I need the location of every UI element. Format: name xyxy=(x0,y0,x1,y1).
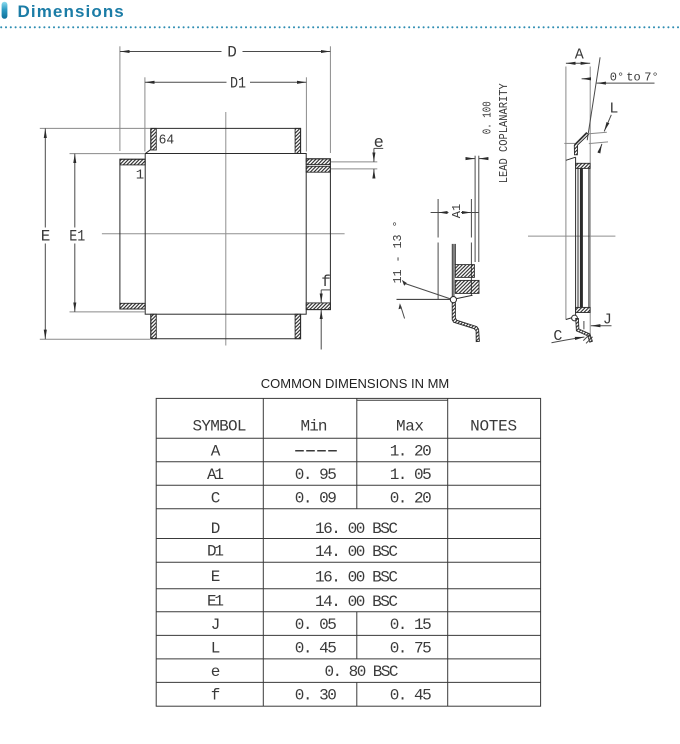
svg-text:D: D xyxy=(211,520,221,538)
svg-text:16. 00 BSC: 16. 00 BSC xyxy=(315,520,398,538)
side view lead profile xyxy=(452,303,479,342)
svg-text:0. 100: 0. 100 xyxy=(481,101,495,134)
svg-text:0. 45: 0. 45 xyxy=(295,639,337,657)
svg-text:f: f xyxy=(321,273,331,291)
top view centerlines xyxy=(102,112,345,346)
table row E xyxy=(211,568,398,586)
end view centerline xyxy=(528,235,615,237)
dimension J xyxy=(584,311,612,329)
svg-text:D: D xyxy=(227,43,237,61)
dimension L xyxy=(588,100,619,149)
angle 11-13 degrees xyxy=(391,221,451,319)
table row D1 xyxy=(207,543,398,561)
svg-text:A: A xyxy=(575,47,584,64)
svg-text:1. 20: 1. 20 xyxy=(390,442,432,460)
dimension A1 xyxy=(431,204,479,218)
svg-text:A1: A1 xyxy=(450,204,464,218)
svg-text:e: e xyxy=(211,663,221,681)
table grid xyxy=(156,398,540,706)
dimension C xyxy=(552,328,585,345)
dimension E xyxy=(40,128,151,339)
svg-text:COMMON DIMENSIONS IN MM: COMMON DIMENSIONS IN MM xyxy=(261,376,450,391)
right lead band xyxy=(306,159,330,310)
end view bottom lead xyxy=(576,319,593,343)
svg-text:SYMBOL: SYMBOL xyxy=(193,417,247,435)
svg-text:0. 30: 0. 30 xyxy=(295,686,337,704)
svg-text:1. 05: 1. 05 xyxy=(390,466,432,484)
svg-text:f: f xyxy=(211,686,221,704)
svg-text:11 - 13 °: 11 - 13 ° xyxy=(391,221,405,284)
end view top lead xyxy=(574,133,588,155)
svg-text:E: E xyxy=(211,568,221,586)
svg-text:LEAD COPLANARITY: LEAD COPLANARITY xyxy=(497,83,511,183)
table row C xyxy=(211,489,432,507)
dimension D1 xyxy=(145,75,307,152)
svg-text:Max: Max xyxy=(396,417,424,435)
side view lead section lower xyxy=(455,280,479,293)
bend circle xyxy=(450,297,456,303)
svg-text:14. 00 BSC: 14. 00 BSC xyxy=(315,543,398,561)
table row e xyxy=(211,663,399,681)
bottom lead band xyxy=(151,314,301,339)
side view body edge xyxy=(452,244,455,299)
svg-text:J: J xyxy=(211,616,221,634)
end view body outline xyxy=(566,157,590,319)
svg-text:NOTES: NOTES xyxy=(470,417,517,435)
svg-text:Min: Min xyxy=(301,417,328,435)
svg-text:0. 09: 0. 09 xyxy=(295,489,337,507)
svg-text:e: e xyxy=(374,134,384,153)
svg-text:16. 00 BSC: 16. 00 BSC xyxy=(315,569,398,587)
left lead band xyxy=(120,159,145,309)
dimension e (lead pitch) xyxy=(331,134,384,178)
table row L xyxy=(211,639,432,657)
svg-text:0°: 0° xyxy=(610,70,624,84)
svg-text:A: A xyxy=(211,442,221,460)
table row f xyxy=(211,686,432,704)
svg-text:Dimensions: Dimensions xyxy=(18,2,125,21)
svg-text:to: to xyxy=(626,70,640,84)
svg-text:D1: D1 xyxy=(230,75,246,93)
svg-text:0. 05: 0. 05 xyxy=(295,616,337,634)
table row A xyxy=(211,442,221,460)
svg-text:0. 20: 0. 20 xyxy=(390,489,432,507)
svg-text:0. 95: 0. 95 xyxy=(295,466,337,484)
side view lead section upper xyxy=(455,265,474,278)
svg-text:1: 1 xyxy=(136,167,144,183)
svg-text:0. 45: 0. 45 xyxy=(390,686,432,704)
dimension C ticks xyxy=(583,334,592,343)
svg-text:L: L xyxy=(211,639,221,657)
dimension A xyxy=(566,47,590,338)
dimension D xyxy=(120,43,331,153)
lead coplanarity band xyxy=(466,156,489,262)
end view bend circle xyxy=(572,315,578,321)
svg-text:A1: A1 xyxy=(207,466,224,484)
dimension f (lead width) xyxy=(321,273,331,350)
top lead band xyxy=(145,128,300,153)
svg-text:E1: E1 xyxy=(207,593,224,611)
svg-text:7°: 7° xyxy=(644,70,658,84)
svg-text:0. 15: 0. 15 xyxy=(390,616,432,634)
top view package body xyxy=(145,154,306,315)
svg-text:0. 80 BSC: 0. 80 BSC xyxy=(325,663,399,681)
side view datum dash-dot line xyxy=(437,199,439,299)
header icon xyxy=(2,2,8,19)
svg-text:L: L xyxy=(609,100,618,117)
svg-text:E1: E1 xyxy=(69,228,85,246)
seating plane line xyxy=(397,295,473,299)
svg-text:64: 64 xyxy=(159,132,175,148)
svg-text:E: E xyxy=(41,228,51,246)
table row E1 xyxy=(207,593,398,611)
svg-text:14. 00 BSC: 14. 00 BSC xyxy=(315,593,398,611)
svg-text:0. 75: 0. 75 xyxy=(390,639,432,657)
angle 0 to 7 degrees xyxy=(582,57,659,140)
side view hidden line xyxy=(470,199,472,296)
table row A1 xyxy=(207,466,432,484)
table row J xyxy=(211,616,432,634)
table header row xyxy=(193,417,518,435)
table row D xyxy=(211,520,398,538)
svg-text:D1: D1 xyxy=(207,543,224,561)
svg-text:C: C xyxy=(211,489,221,507)
dimension E1 xyxy=(69,154,145,312)
lead tip plane tick xyxy=(564,142,575,144)
header dotted rule xyxy=(1,26,680,28)
